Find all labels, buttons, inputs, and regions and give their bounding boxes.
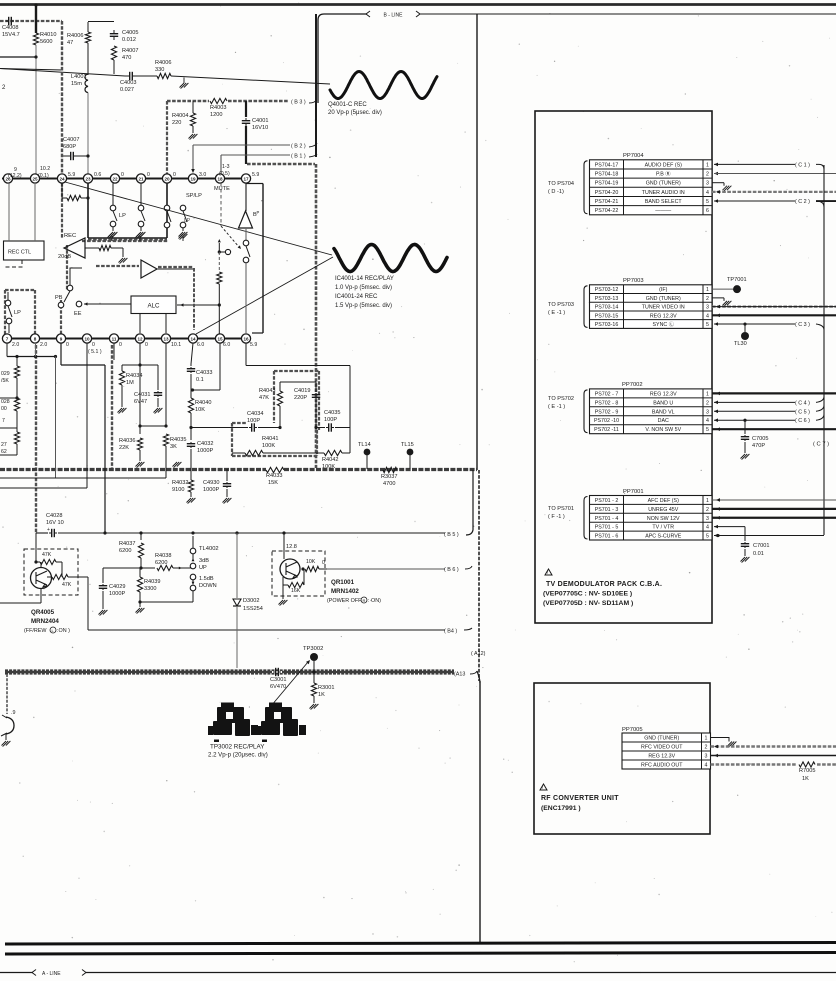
wire C5 [714,410,718,414]
svg-text:( A12): ( A12) [471,651,486,657]
svg-text:1: 1 [706,391,709,397]
svg-text:0: 0 [66,342,69,348]
inductor head coil [6,717,14,734]
svg-text:V. NON SW 5V: V. NON SW 5V [645,427,681,433]
waveform photo TP3002 right [256,703,306,743]
svg-text:LP: LP [14,310,21,316]
wire C4005 lower [113,60,115,74]
svg-text:R4007: R4007 [122,48,138,54]
svg-text:R4036: R4036 [119,438,135,444]
svg-text:0: 0 [121,172,124,178]
wire pin10 drop [86,343,88,488]
svg-text:C3001: C3001 [270,677,286,683]
shield mid horizontal y241 [82,240,168,242]
svg-text:3: 3 [706,516,709,522]
svg-text:6: 6 [706,208,709,214]
svg-text:C4031: C4031 [134,392,150,398]
svg-text:C4029: C4029 [109,584,125,590]
svg-text:00: 00 [1,406,7,412]
svg-text:QR1001: QR1001 [331,579,355,586]
svg-text:0: 0 [147,172,150,178]
transistor BP [239,211,253,228]
wire PP7001-1 [712,499,836,501]
wire QR1001 base [283,533,285,559]
pin 19 IC4001 [188,174,197,183]
svg-text:C4003: C4003 [120,80,136,86]
svg-text:C4033: C4033 [196,370,212,376]
svg-text:RF CONVERTER UNIT: RF CONVERTER UNIT [541,795,619,802]
svg-text:PP7001: PP7001 [623,489,644,495]
svg-text:REG 12.3V: REG 12.3V [648,754,675,760]
svg-text:———: ——— [655,208,672,214]
wire PP7003-4 [712,314,836,316]
svg-text:R4006: R4006 [155,60,171,66]
wire PP7002-5 [712,428,836,430]
svg-text:( B 5 ): ( B 5 ) [444,532,459,538]
svg-text:R3037: R3037 [381,474,397,480]
svg-text:IC4001-14 REC/PLAY: IC4001-14 REC/PLAY [335,276,394,282]
svg-text:1.5dB: 1.5dB [199,576,214,582]
svg-text:GND (TUNER): GND (TUNER) [646,181,681,187]
svg-text:0.012: 0.012 [122,37,136,43]
svg-text:TUNER VIDEO IN: TUNER VIDEO IN [642,305,685,311]
svg-text:R4004: R4004 [172,113,188,119]
svg-text:PS701 - 6: PS701 - 6 [595,534,619,540]
resistor R4010 [33,33,38,45]
wire B5 line [105,532,445,534]
svg-text:16: 16 [243,336,249,341]
svg-text:0: 0 [145,342,148,348]
svg-text:0: 0 [92,342,95,348]
svg-text:C4028: C4028 [46,513,62,519]
wire pin15 drop [219,343,221,390]
wire C4007 link [62,155,65,157]
svg-text:( B 3 ): ( B 3 ) [291,100,306,106]
svg-text:PS702 -11: PS702 -11 [594,427,619,433]
wire left col [16,357,18,367]
wire node line y427 [191,427,248,429]
svg-text:1: 1 [705,736,708,742]
shield x36 lower [35,345,37,533]
wire L4001 lower [87,93,89,178]
svg-text:.9: .9 [11,710,16,716]
ground row y233 b [139,236,141,241]
shield x194 vertical [193,268,195,330]
svg-text:MRN1402: MRN1402 [331,588,359,595]
block ALC [131,296,176,314]
pin 14 IC4001 row2 [188,334,197,343]
svg-text:PS703-14: PS703-14 [595,305,619,311]
wire B-LINE branch [318,14,367,103]
svg-text:PP7004: PP7004 [623,153,644,159]
svg-text:R: R [363,598,366,603]
wire B-LINE trunk (top) [0,3,836,6]
svg-text:PS704-17: PS704-17 [595,162,619,168]
wire PP7004-3 gnd [712,182,724,184]
wire REC CTL dash [3,260,22,267]
svg-text:( E -1 ): ( E -1 ) [548,310,565,316]
wire PP7004-4 [712,191,836,193]
wire R4006a top [87,22,89,32]
svg-text:15m: 15m [71,81,82,87]
svg-text:SP/LP: SP/LP [186,193,202,199]
svg-text:( 5.1 ): ( 5.1 ) [88,349,102,355]
svg-text:( F -1 ): ( F -1 ) [548,514,565,520]
wire main vertical bus x477 [476,14,478,470]
svg-text:C7005: C7005 [752,436,768,442]
svg-text:!: ! [547,570,548,575]
wire pin14 drop [191,343,193,364]
wire pin17 drop [245,183,247,211]
wire pin7 drop [6,343,8,357]
svg-text:0.01: 0.01 [753,551,764,557]
wire bottom thick 2 [5,953,836,955]
svg-text:0: 0 [322,560,325,566]
svg-text:16K: 16K [291,588,301,594]
resistor R4033 [266,467,284,472]
wire PP7004-2 [714,172,718,176]
capacitor C4033 [190,364,192,366]
svg-text:PS701 - 3: PS701 - 3 [595,507,619,513]
pin 10 IC4001 row2 [82,334,91,343]
svg-text:11: 11 [112,336,117,341]
svg-text:R4040: R4040 [195,400,211,406]
svg-text:/5K: /5K [1,378,9,384]
svg-text:PS702 - 8: PS702 - 8 [595,400,619,406]
switch under BP [243,240,249,246]
svg-text:( C 2 ): ( C 2 ) [795,199,810,205]
pin 8 IC4001 row2 [30,334,39,343]
pin 22 IC4001 [110,174,119,183]
wire pin11 drop [113,343,115,360]
svg-text:GND (TUNER): GND (TUNER) [644,736,679,742]
svg-text:AFC DEF (S): AFC DEF (S) [648,498,679,504]
wire amp2 out [157,268,193,270]
svg-text:470P: 470P [752,443,765,449]
svg-text:( B4 ): ( B4 ) [444,629,457,635]
wire PP7003-2 gnd [712,297,724,299]
svg-text:( C 1 ): ( C 1 ) [795,162,810,168]
svg-text:REG 12.3V: REG 12.3V [650,313,677,319]
resistor R4036 [137,438,142,450]
pin 18 IC4001 [215,174,224,183]
wire x55 vertical [55,357,57,479]
svg-text:1200: 1200 [210,112,222,118]
pin 9 IC4001 row2 [56,334,65,343]
svg-text:R4041: R4041 [262,436,278,442]
wire EE path [70,268,82,285]
resistor R4040 [188,398,193,413]
svg-text:16V10: 16V10 [252,125,268,131]
svg-text:PS704-20: PS704-20 [595,190,619,196]
svg-text:( C 6 ): ( C 6 ) [795,418,810,424]
wire ALC drops [139,314,141,334]
pin 20 IC4001 [162,174,171,183]
svg-text:10.2: 10.2 [40,166,50,172]
svg-text:47K: 47K [259,395,269,401]
wire right vertical x263 [246,183,252,185]
svg-text:TL30: TL30 [734,341,747,347]
svg-text:6.0: 6.0 [223,342,230,348]
svg-text:21: 21 [138,176,144,181]
wire noisy vertical x479 [478,470,480,681]
svg-text:3K: 3K [170,444,177,450]
svg-text:8: 8 [34,336,37,341]
wire pin9 path [60,343,62,365]
svg-text:3: 3 [706,305,709,311]
waveform Q4001-C REC [330,72,437,99]
svg-text:APC S-CURVE: APC S-CURVE [645,534,682,540]
svg-text:(0.5): (0.5) [219,171,230,177]
pin 7 IC4001 row2 [2,334,11,343]
svg-text:EE: EE [74,311,82,317]
resistor R4003 [210,98,227,103]
svg-text:R4006: R4006 [67,33,83,39]
svg-text:5.9: 5.9 [68,172,75,178]
svg-text:1K: 1K [318,692,325,698]
svg-text:RFC VIDEO OUT: RFC VIDEO OUT [641,745,683,751]
wire C2 [714,199,718,203]
svg-text:220: 220 [172,120,181,126]
svg-text:!: ! [542,785,543,790]
svg-text:RFC AUDIO OUT: RFC AUDIO OUT [641,763,683,769]
waveform IC4001-14 [334,245,447,272]
svg-text:MRN2404: MRN2404 [31,618,59,625]
svg-text:NON SW 12V: NON SW 12V [647,516,680,522]
svg-text:24: 24 [59,176,65,181]
switch LP3 [164,205,170,211]
pin 12 IC4001 row2 [135,334,144,343]
wire C1 [714,163,718,167]
wire pin16 frame [245,343,247,366]
svg-text:TV / VTR: TV / VTR [652,525,674,531]
svg-text:1-3: 1-3 [222,164,230,170]
wire stub y68 [0,69,62,71]
svg-text:QR4005: QR4005 [31,609,55,616]
svg-text:5: 5 [706,322,709,328]
svg-text:1SS254: 1SS254 [243,606,263,612]
svg-text:PS701 - 4: PS701 - 4 [595,516,619,522]
wire PP7001-4 [714,525,718,529]
block TV demodulator pack [535,111,712,623]
svg-text:PP7003: PP7003 [623,278,644,284]
shield left vertical [61,21,63,176]
wire ALC right [177,304,219,306]
svg-text:10K: 10K [195,407,205,413]
svg-text:R4032: R4032 [172,480,188,486]
svg-text:TO PS701: TO PS701 [548,506,574,512]
svg-text:7: 7 [6,336,9,341]
svg-text:2: 2 [706,400,709,406]
svg-text:680P: 680P [63,144,76,150]
svg-text:6200: 6200 [119,548,131,554]
svg-text:PS704-22: PS704-22 [595,208,619,214]
svg-text:( E -1 ): ( E -1 ) [548,404,565,410]
svg-text:4: 4 [706,313,709,319]
svg-text:A - LINE: A - LINE [42,971,61,977]
ground under slope [183,78,185,84]
svg-text:R4038: R4038 [155,553,171,559]
svg-text:1000P: 1000P [197,448,213,454]
svg-text:12: 12 [137,336,143,341]
shield B1 horizontal [247,163,315,165]
wire pin13 drop [165,343,167,426]
svg-text:3: 3 [706,181,709,187]
svg-text:1K: 1K [802,776,809,782]
svg-text:R4033: R4033 [266,473,282,479]
svg-text:R4043: R4043 [259,388,275,394]
svg-text:2.0: 2.0 [40,342,47,348]
svg-text:100P: 100P [324,417,337,423]
wire R4010 lower [35,45,37,178]
svg-text:47K: 47K [62,582,72,588]
svg-text:5: 5 [706,427,709,433]
wire A13 bus [5,669,454,671]
svg-text:TL15: TL15 [401,442,414,448]
svg-text:Q4001-C REC: Q4001-C REC [328,102,367,108]
svg-text:7: 7 [2,418,5,424]
wire C6 [714,418,718,422]
wire MUTE dashed drop [220,183,222,226]
capacitor C4031 [157,365,159,390]
pin 13 IC4001 row2 [161,334,170,343]
svg-text:3dB: 3dB [199,558,209,564]
svg-text:1: 1 [706,162,709,168]
svg-text:UP: UP [199,565,207,571]
resistor R4027 [14,432,19,444]
wire stub y57 [0,56,36,58]
svg-text:1.0 Vp-p (5msec. div): 1.0 Vp-p (5msec. div) [335,285,392,291]
svg-text:2.2 Vp-p (20μsec. div): 2.2 Vp-p (20μsec. div) [208,752,268,759]
svg-text:028: 028 [1,399,10,405]
svg-text:PS704-19: PS704-19 [595,181,619,187]
svg-text:19: 19 [190,176,196,181]
svg-text:TL14: TL14 [358,442,371,448]
svg-text:5.9: 5.9 [252,172,259,178]
resistor R4039 [137,577,142,592]
svg-text:BAND U: BAND U [653,400,673,406]
resistor R3001 [313,672,315,683]
svg-text:( C 4 ): ( C 4 ) [795,400,810,406]
pin 15 IC4001 row2 [215,334,224,343]
svg-text:1M: 1M [126,380,134,386]
op-amp A2 [141,260,157,278]
capacitor C7001 [744,542,746,544]
svg-text:PS704-21: PS704-21 [595,199,619,205]
resistor R3037 [383,467,397,472]
svg-text:IC4001-24 REC: IC4001-24 REC [335,294,378,300]
svg-text:6V47: 6V47 [134,399,147,405]
op-amp REC 20dB [64,238,85,258]
svg-text:6V470: 6V470 [270,684,286,690]
svg-text:22: 22 [112,176,118,181]
svg-text:DAC: DAC [658,418,669,424]
svg-text:B - LINE: B - LINE [384,12,404,18]
ground row y233 c [182,236,184,241]
diode D3002 [236,533,238,598]
wire B1 drop [220,155,222,174]
svg-text:5600: 5600 [40,39,52,45]
svg-text:(VEP07705C : NV- SD10EE ): (VEP07705C : NV- SD10EE ) [543,591,632,598]
svg-text:22K: 22K [119,445,129,451]
svg-text:C4005: C4005 [122,30,138,36]
capacitor C4005 [113,30,115,34]
wire A-LINE [0,972,33,974]
svg-text:10: 10 [84,336,90,341]
shield bottom bus y470 [0,468,266,471]
svg-text:4: 4 [706,525,709,531]
svg-text:TL4002: TL4002 [199,546,219,552]
resistor R4042 [324,450,342,455]
svg-text:R7005: R7005 [799,768,815,774]
wire mute branch [218,239,221,242]
svg-text:C4001: C4001 [252,118,268,124]
wire PP7002-1 [712,392,836,394]
wire PP7005-2 [711,745,836,747]
wire REC CTL tops [8,183,10,241]
svg-text:100K: 100K [262,443,275,449]
shield EE vertical [66,245,68,290]
wire B2 drop [192,145,194,170]
shield amp2 horizontal y266 [96,265,139,267]
wire mid slope [0,69,125,77]
svg-text:2: 2 [705,745,708,751]
test point TP7001 [712,288,733,290]
svg-text:R4039: R4039 [144,579,160,585]
svg-text:9: 9 [60,336,63,341]
svg-text:(0.1): (0.1) [38,173,49,179]
svg-text:12.8: 12.8 [286,544,297,550]
svg-text:(FF/REW: (FF/REW [24,628,47,634]
resistor R4037 [140,533,142,540]
capacitor C4003 [125,75,130,77]
pointer line pin14-wave [196,257,333,334]
svg-text:0: 0 [119,342,122,348]
svg-text:C4035: C4035 [324,410,340,416]
wire B4 run [87,577,89,630]
svg-text:15V4.7: 15V4.7 [2,32,20,38]
resistor under pin24 [67,195,81,200]
resistor after REC amp [99,245,111,250]
svg-text:PS704-18: PS704-18 [595,172,619,178]
warning triangle TV [545,569,552,575]
svg-text:0.1: 0.1 [196,377,204,383]
svg-text:R3001: R3001 [318,685,334,691]
svg-text:: ON): : ON) [368,598,381,604]
shield LP box left [4,290,6,335]
capacitor C3001 [273,671,276,673]
svg-text:PS703-16: PS703-16 [595,322,619,328]
svg-text:18: 18 [217,176,223,181]
pin 16 IC4001 row2 [241,334,250,343]
wire C-rail vertical [823,165,825,535]
svg-text:R4037: R4037 [119,541,135,547]
shield x167 vertical [166,101,168,176]
shield box C4034 loop [231,423,233,456]
svg-text:R4003: R4003 [210,105,226,111]
pin 17 IC4001 [241,174,250,183]
shield right big vertical [315,164,318,468]
test point TL30 [744,324,746,332]
resistor R4034 [121,365,123,371]
svg-text:0: 0 [173,172,176,178]
svg-text:1.5 Vp-p (5msec. div): 1.5 Vp-p (5msec. div) [335,303,392,309]
svg-text:3300: 3300 [144,586,156,592]
svg-text:47K: 47K [42,552,52,558]
wire top-left vertical [35,5,37,33]
svg-text:(A13: (A13 [454,672,465,678]
resistor R4007 [111,46,116,60]
